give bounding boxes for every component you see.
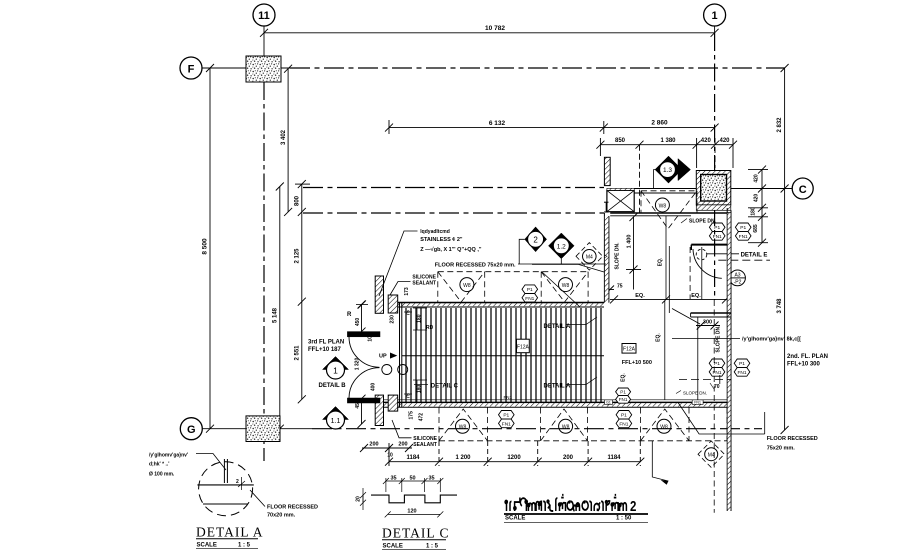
EQ rotated labels xyxy=(621,333,662,382)
leader arrow below walkway xyxy=(652,441,668,484)
svg-text:685: 685 xyxy=(753,224,759,233)
svg-text:2 125: 2 125 xyxy=(295,248,301,264)
svg-text:P1: P1 xyxy=(740,225,746,231)
window W8 triangle below bay3 xyxy=(641,409,689,441)
M4 dashed diamond below xyxy=(698,441,731,467)
svg-text:70: 70 xyxy=(714,384,720,390)
rotated small dims left lobby xyxy=(355,287,425,421)
svg-text:11: 11 xyxy=(258,10,270,22)
grid line F horizontal xyxy=(202,67,785,69)
SLOPE DN small bottom xyxy=(676,391,707,396)
svg-text:1: 1 xyxy=(712,10,718,22)
W8 circle lobby xyxy=(655,198,669,212)
section marker 1.1 xyxy=(323,407,349,430)
DETAIL E leader and label xyxy=(707,252,767,258)
svg-text:3 748: 3 748 xyxy=(777,298,783,314)
svg-text:SCALE: SCALE xyxy=(197,543,217,549)
hexagon P1/FN1 in lobby right xyxy=(734,359,750,376)
svg-text:1.3: 1.3 xyxy=(663,167,672,174)
grid bubble 11 xyxy=(253,4,275,26)
svg-text:W8: W8 xyxy=(659,203,667,209)
left wall lower segment xyxy=(375,395,383,425)
tiny FN1 labels above bottom band xyxy=(504,395,631,400)
dim 450 lower left xyxy=(355,395,366,428)
svg-text:1 380: 1 380 xyxy=(660,138,676,144)
svg-text:EQ.: EQ. xyxy=(635,293,645,299)
stair right wall (walkway side) xyxy=(604,213,609,303)
detail A drain pipe xyxy=(224,459,227,483)
svg-text:STAINLESS ¢ 2": STAINLESS ¢ 2" xyxy=(420,237,463,243)
svg-text:300: 300 xyxy=(703,320,712,326)
dim 75 xyxy=(606,284,623,294)
svg-text:/y'glhomv'ga}nv' 8k,c[[: /y'glhomv'ga}nv' 8k,c[[ xyxy=(742,337,801,343)
svg-text:35: 35 xyxy=(428,476,434,482)
wall stub upper xyxy=(347,332,380,337)
elevation marker 1.3 xyxy=(654,156,691,189)
svg-text:75: 75 xyxy=(617,284,623,290)
window W8 triangle above bay2 xyxy=(541,272,588,302)
walkway left edge xyxy=(400,303,402,407)
svg-text:2: 2 xyxy=(236,479,239,485)
svg-text:F: F xyxy=(188,64,195,76)
svg-text:FN1: FN1 xyxy=(619,421,628,427)
wall stub lower xyxy=(347,398,380,403)
dim 5,148 xyxy=(273,183,284,433)
svg-text:50: 50 xyxy=(409,476,415,482)
dim 10,782 top xyxy=(260,25,719,37)
detail C dim 120 xyxy=(385,508,444,517)
dim 2,832 / 3,748 right xyxy=(777,64,789,434)
hexagon P1/FN1 upper pair right xyxy=(735,223,751,240)
dim 6,132 / 2,860 xyxy=(385,120,719,135)
svg-text:1 320: 1 320 xyxy=(355,358,361,371)
svg-text:SEALANT: SEALANT xyxy=(413,442,437,448)
wall corner block bottom xyxy=(388,395,398,411)
elevation marker 1.2 xyxy=(549,233,575,264)
detail A lower line xyxy=(203,503,248,505)
grid line C horizontal xyxy=(303,188,792,189)
dim EQ EQ horizontal xyxy=(610,293,730,303)
W8 circle bay2 xyxy=(559,278,573,292)
svg-text:6 132: 6 132 xyxy=(489,120,506,127)
detail C title xyxy=(382,526,450,550)
hexagon P1/FN1 upper pair left xyxy=(709,223,725,240)
stair right wall hatched upper xyxy=(604,157,610,185)
svg-text:/y'glhomv'ga}nv': /y'glhomv'ga}nv' xyxy=(149,453,188,459)
stainless leader xyxy=(379,231,418,296)
grid line G horizontal xyxy=(202,428,762,430)
hexagon P1/FN1 below walkway right xyxy=(616,411,632,428)
svg-text:FFL+10 500: FFL+10 500 xyxy=(622,360,652,366)
svg-text:175: 175 xyxy=(409,411,415,420)
svg-text:SCALE: SCALE xyxy=(505,516,525,522)
window opening dashes in top wall xyxy=(641,191,697,213)
svg-text:R: R xyxy=(347,312,352,318)
svg-text:A3: A3 xyxy=(734,272,740,278)
svg-text:FLOOR RECESSED: FLOOR RECESSED xyxy=(267,505,318,511)
svg-text:1 : 50: 1 : 50 xyxy=(616,516,632,522)
svg-text:P1: P1 xyxy=(527,287,533,293)
svg-text:75x20 mm.: 75x20 mm. xyxy=(767,446,796,452)
svg-text:DETAIL A: DETAIL A xyxy=(196,525,264,540)
svg-text:1200: 1200 xyxy=(507,455,521,461)
DETAIL C mid label xyxy=(414,384,459,390)
svg-text:FLOOR RECESSED 75x20 mm.: FLOOR RECESSED 75x20 mm. xyxy=(435,262,516,268)
3rd floor plan label xyxy=(308,340,344,354)
left wall top edge lines near column xyxy=(634,189,696,194)
svg-text:d;hk' * ..': d;hk' * ..' xyxy=(149,462,169,468)
svg-text:1184: 1184 xyxy=(406,455,420,461)
svg-text:W8: W8 xyxy=(562,425,570,431)
svg-text:EQ.: EQ. xyxy=(658,257,664,266)
svg-text:35: 35 xyxy=(390,476,396,482)
svg-text:1.2: 1.2 xyxy=(557,243,566,250)
svg-text:RD: RD xyxy=(426,325,434,331)
svg-text:2: 2 xyxy=(533,236,538,245)
svg-text:200: 200 xyxy=(563,455,574,461)
dim 3,402 xyxy=(281,65,292,216)
F12A tag right lobby xyxy=(622,344,652,367)
svg-text:8 500: 8 500 xyxy=(202,238,209,255)
left wall upper segment xyxy=(375,276,383,313)
svg-text:FN1: FN1 xyxy=(525,296,534,302)
interior vertical line xyxy=(697,317,699,400)
svg-text:G: G xyxy=(187,424,196,436)
svg-text:P1: P1 xyxy=(739,361,745,367)
W8 circle below bay2 xyxy=(559,419,573,433)
svg-text:180: 180 xyxy=(751,207,757,216)
lower bay verticals dashed xyxy=(439,408,727,442)
svg-text:W8: W8 xyxy=(459,425,467,431)
svg-text:2: 2 xyxy=(630,498,636,515)
svg-text:SLOPE DN.: SLOPE DN. xyxy=(683,391,707,396)
dim 200/200 + 10 xyxy=(360,442,413,459)
svg-text:P1: P1 xyxy=(620,390,626,395)
svg-text:400: 400 xyxy=(371,383,377,392)
grid bubble G xyxy=(180,418,202,440)
grid bubble F xyxy=(180,57,202,79)
svg-text:850: 850 xyxy=(615,138,626,144)
window W8 triangle above bay1 xyxy=(438,272,485,302)
svg-text:F12A: F12A xyxy=(623,347,636,353)
grid bubble C xyxy=(792,178,813,199)
svg-text:420: 420 xyxy=(754,174,760,183)
detail A small dim 2 xyxy=(236,477,245,490)
svg-text:FN1: FN1 xyxy=(619,397,628,402)
svg-text:800: 800 xyxy=(295,195,301,206)
svg-text:M4: M4 xyxy=(586,255,593,261)
walkway top edge band xyxy=(388,303,604,307)
shaft X box xyxy=(607,188,634,211)
svg-text:P1: P1 xyxy=(714,361,720,367)
svg-text:DETAIL C: DETAIL C xyxy=(431,384,459,390)
svg-text:FN1: FN1 xyxy=(737,370,746,376)
leader line to wall xyxy=(518,263,606,265)
hexagon P1/FN1 in lobby left xyxy=(709,359,725,376)
small tags on bottom band xyxy=(605,400,704,405)
svg-text:EQ.: EQ. xyxy=(656,333,662,342)
svg-text:SCALE: SCALE xyxy=(383,544,403,550)
svg-text:10: 10 xyxy=(387,453,393,459)
svg-text:472: 472 xyxy=(419,413,425,422)
diagonal across bay 2 xyxy=(542,272,581,308)
dashed line near hexes xyxy=(679,375,731,384)
detail A dashed circle xyxy=(199,462,253,516)
svg-text:FN1: FN1 xyxy=(739,234,748,240)
section marker 1 xyxy=(323,357,349,380)
SLOPE DN label lobby xyxy=(681,219,717,225)
column F-11 xyxy=(246,56,281,82)
svg-text:1 : 5: 1 : 5 xyxy=(426,544,439,550)
svg-text:SEALANT: SEALANT xyxy=(412,281,436,287)
svg-text:P1: P1 xyxy=(714,225,720,231)
svg-text:420: 420 xyxy=(719,138,730,144)
detail A floor recessed note xyxy=(267,505,318,519)
dim 8,500 left xyxy=(202,64,215,433)
svg-text:W8: W8 xyxy=(660,425,668,431)
door arc upper xyxy=(349,337,380,368)
F12A tag box in walkway xyxy=(517,339,530,353)
DETAIL A mid labels xyxy=(544,317,598,330)
door arc lower xyxy=(349,368,380,398)
W8 circle below bay3 xyxy=(657,419,671,433)
svg-text:G1: G1 xyxy=(606,401,611,405)
right wall of lobby with hatch xyxy=(727,208,731,511)
svg-text:1: 1 xyxy=(333,366,338,376)
detail A note leader xyxy=(196,454,226,471)
svg-text:EQ.: EQ. xyxy=(621,373,627,382)
svg-text:100: 100 xyxy=(368,333,374,342)
dim 420/420/180/685 right inner xyxy=(748,166,768,247)
svg-text:450: 450 xyxy=(355,318,361,327)
thai sheet title xyxy=(505,495,636,514)
hexagon P1/FN1 below walkway left xyxy=(499,411,515,428)
svg-text:W8: W8 xyxy=(562,283,570,289)
svg-text:C: C xyxy=(799,184,807,196)
svg-text:200: 200 xyxy=(369,442,378,448)
svg-text:173: 173 xyxy=(404,287,410,296)
svg-text:1 : 5: 1 : 5 xyxy=(238,543,251,549)
detail C dim 20 xyxy=(356,488,367,510)
door knob circles xyxy=(382,365,408,375)
upper bay verticals dashed xyxy=(438,272,588,303)
svg-text:10 782: 10 782 xyxy=(485,25,505,32)
walkway centre rail line xyxy=(402,355,604,357)
svg-text:230: 230 xyxy=(389,315,395,324)
svg-text:UP: UP xyxy=(379,354,387,360)
svg-text:1 200: 1 200 xyxy=(455,455,471,461)
svg-text:2nd. FL. PLAN: 2nd. FL. PLAN xyxy=(787,354,828,360)
stainless note texts xyxy=(420,229,482,253)
window W8 triangle below bay1 xyxy=(439,409,488,441)
svg-text:F12A: F12A xyxy=(517,344,530,350)
svg-text:420: 420 xyxy=(754,194,760,203)
svg-text:2 860: 2 860 xyxy=(651,120,668,127)
detail A title xyxy=(196,525,264,549)
svg-text:lqdyadltcmd: lqdyadltcmd xyxy=(420,229,449,235)
svg-text:Ø 100 mm.: Ø 100 mm. xyxy=(149,472,175,478)
dim 300 xyxy=(696,320,720,330)
detail C profile xyxy=(371,495,457,503)
svg-text:75: 75 xyxy=(406,310,412,316)
2nd floor plan label xyxy=(787,354,828,368)
silicone sealant label bottom xyxy=(392,420,438,448)
svg-text:W8: W8 xyxy=(463,283,471,289)
small tick dims near walkway left xyxy=(404,308,427,402)
column C-1 outer hatched ring xyxy=(696,171,731,211)
I beam symbol xyxy=(604,202,609,212)
dim 1,400 xyxy=(626,213,641,290)
svg-text:2 551: 2 551 xyxy=(295,345,301,361)
walkway bottom edge band xyxy=(376,400,732,408)
walkway plank hatching xyxy=(406,308,601,402)
svg-text:120: 120 xyxy=(407,508,416,514)
wall corner block top xyxy=(388,295,398,313)
dim 850 / 1,380 / 420 / 420 xyxy=(596,138,737,213)
svg-text:FN1: FN1 xyxy=(713,234,722,240)
A3/-P2 marker xyxy=(730,270,746,286)
dim 450 upper left xyxy=(355,301,366,336)
detail A floor line xyxy=(197,484,253,486)
70 small dim xyxy=(710,383,720,390)
grid line 1 vertical xyxy=(714,26,716,300)
svg-text:EQ.: EQ. xyxy=(691,293,701,299)
right floor recessed note xyxy=(678,402,818,452)
floor recessed note top xyxy=(435,262,604,272)
grid bubble 1 xyxy=(704,4,726,26)
dashed line below detail E xyxy=(718,259,770,261)
M4 dashed diamond upper xyxy=(576,243,608,271)
wall stub 300 xyxy=(672,309,731,325)
W8 circle below bay1 xyxy=(456,419,470,433)
svg-text:5 148: 5 148 xyxy=(273,307,279,323)
svg-text:FN1: FN1 xyxy=(694,401,701,405)
svg-text:P1: P1 xyxy=(503,413,509,419)
hexagon P1/FN1 lobby bottom xyxy=(616,388,631,403)
svg-text:2 832: 2 832 xyxy=(777,117,783,133)
UP arrow xyxy=(379,353,396,359)
column G-11 xyxy=(246,416,280,442)
svg-text:3 402: 3 402 xyxy=(281,129,287,145)
svg-text:DETAIL E: DETAIL E xyxy=(741,252,768,258)
svg-text:20: 20 xyxy=(356,496,362,502)
silicone sealant label top xyxy=(390,275,437,296)
elevation marker 2 xyxy=(519,227,546,264)
svg-text:200: 200 xyxy=(398,442,407,448)
svg-text:DETAIL B: DETAIL B xyxy=(319,383,347,389)
thai note right xyxy=(672,337,801,343)
svg-text:3rd FL PLAN: 3rd FL PLAN xyxy=(308,340,344,346)
svg-text:FN1: FN1 xyxy=(712,370,721,376)
svg-text:1 400: 1 400 xyxy=(627,235,633,249)
svg-text:DETAIL C: DETAIL C xyxy=(382,526,450,541)
secondary dash-dot line below C xyxy=(303,212,604,214)
grid line 11 vertical xyxy=(263,26,265,461)
svg-text:420: 420 xyxy=(701,138,712,144)
dim 800 / 2,125 / 2,551 xyxy=(295,180,310,403)
vertical dashed interior lines xyxy=(690,247,714,513)
vestibule top wall xyxy=(691,245,728,250)
svg-text:>: > xyxy=(604,255,608,261)
vertical EQ line mid lobby xyxy=(658,216,667,299)
detail A note left xyxy=(149,453,188,478)
svg-text:P1: P1 xyxy=(621,413,627,419)
svg-text:FFL+10 300: FFL+10 300 xyxy=(787,362,821,368)
W8 circle bay1 xyxy=(460,278,474,292)
svg-text:180: 180 xyxy=(417,385,423,394)
hexagon P1/FN1 above walkway xyxy=(522,285,538,302)
svg-text:DETAIL A: DETAIL A xyxy=(544,324,572,330)
svg-text:1.1: 1.1 xyxy=(331,418,341,425)
dashed door circle symbol xyxy=(696,249,707,260)
svg-text:FN1: FN1 xyxy=(504,395,513,400)
window W8 triangle lobby xyxy=(641,191,697,229)
svg-text:180: 180 xyxy=(417,314,423,323)
svg-text:70x20 mm.: 70x20 mm. xyxy=(267,513,296,519)
detail C dim 35/50/35 xyxy=(383,476,443,493)
svg-text:FN1: FN1 xyxy=(502,421,511,427)
R label + tick xyxy=(347,301,368,319)
svg-text:FLOOR RECESSED: FLOOR RECESSED xyxy=(767,436,818,442)
svg-text:Z —√gb, X 1'" Q"+QQ ,": Z —√gb, X 1'" Q"+QQ ," xyxy=(420,246,482,253)
window W8 triangle below bay2 xyxy=(541,409,588,441)
svg-text:FFL+10 187: FFL+10 187 xyxy=(308,347,342,353)
svg-text:SLOPE DN.: SLOPE DN. xyxy=(615,242,621,270)
svg-text:-P2: -P2 xyxy=(734,280,742,286)
door leaf arc xyxy=(693,249,722,278)
svg-text:1184: 1184 xyxy=(607,455,621,461)
dim bottom 1184 x5 xyxy=(385,441,644,466)
lobby top wall xyxy=(610,213,731,216)
